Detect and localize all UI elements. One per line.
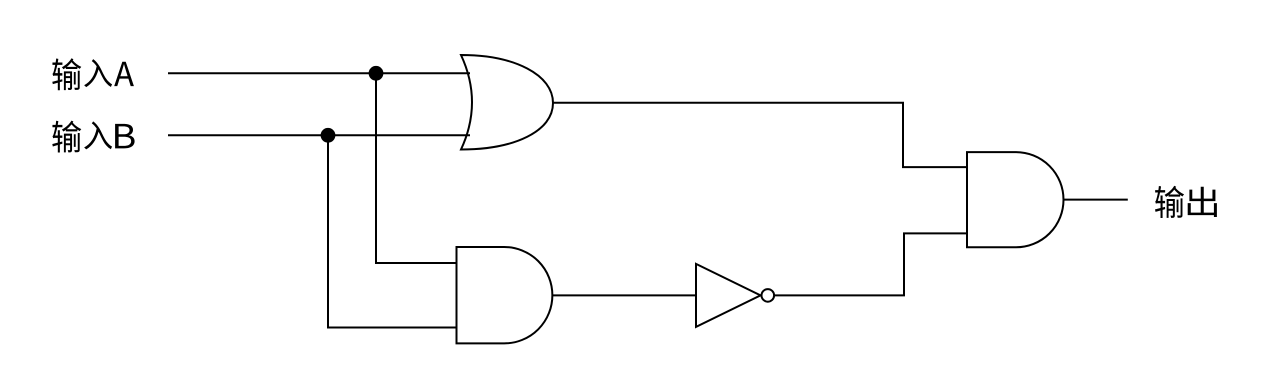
wire NOT1 output to AND2 bottom input bbox=[775, 233, 967, 295]
junction node on input B bbox=[321, 128, 336, 143]
wire from node B down to AND1 bottom input bbox=[328, 135, 457, 327]
wire AND2 output bbox=[1064, 199, 1128, 201]
label 输出 (output) bbox=[1155, 186, 1217, 218]
inverter U3 (NOT) triangle bbox=[696, 264, 761, 327]
and-gate U4 (AND) bbox=[967, 152, 1064, 247]
junction node on input A bbox=[369, 66, 384, 81]
wire input A horizontal bbox=[168, 72, 470, 74]
wire input B horizontal bbox=[168, 134, 470, 136]
inverter U3 bubble bbox=[762, 289, 775, 302]
wire AND1 output to NOT1 input bbox=[552, 294, 696, 296]
wire OR1 output to AND2 top input bbox=[553, 103, 968, 167]
and-gate U2 (AND) bbox=[457, 247, 553, 343]
or-gate U1 (OR) bbox=[461, 55, 553, 150]
label 输入B (input B) bbox=[52, 121, 134, 153]
wire from node A down to AND1 top input bbox=[376, 73, 457, 263]
label 输入A (input A) bbox=[52, 58, 134, 90]
